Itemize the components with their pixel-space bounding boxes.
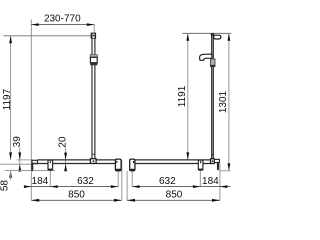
svg-text:1197: 1197 [2, 88, 13, 110]
top bracket arm [214, 35, 221, 39]
dimension 1191 [187, 33, 189, 159]
svg-text:850: 850 [68, 190, 85, 201]
dimension 1197 [10, 36, 12, 160]
right flange [214, 159, 219, 162]
svg-text:632: 632 [159, 176, 176, 187]
rod joint tick [92, 153, 96, 155]
rod joint tick right [211, 153, 214, 155]
foot center extension lines [49, 170, 51, 186]
right dark foot [217, 163, 219, 171]
svg-text:230-770: 230-770 [44, 14, 81, 25]
left side extension lines [17, 159, 33, 161]
svg-text:58: 58 [0, 180, 11, 192]
rod slider [90, 55, 97, 58]
svg-text:184: 184 [32, 176, 49, 187]
dimension line 632 / 184 right [132, 186, 230, 188]
svg-text:20: 20 [58, 136, 69, 148]
right end cap [115, 159, 121, 171]
top reference line [3, 35, 91, 37]
rod-bar junction [90, 159, 96, 164]
top reference line [182, 32, 231, 34]
rod slider right [210, 59, 215, 67]
left dark foot [31, 164, 33, 172]
dimension line 850 right [127, 199, 220, 201]
svg-text:850: 850 [166, 190, 183, 201]
dimension 230-770 [31, 24, 94, 26]
dimension line 850 [31, 199, 122, 201]
dimension 58 [9, 170, 12, 177]
left end cap right figure [130, 159, 135, 171]
extension line rod top [93, 25, 95, 33]
rod-bar junction right [211, 159, 215, 164]
svg-text:632: 632 [77, 176, 94, 187]
rod top cap [91, 33, 97, 39]
bar tube right [135, 159, 211, 161]
extension line right end [121, 160, 123, 200]
rod right [211, 33, 213, 159]
mid foot [48, 160, 53, 170]
extension lines right figure [219, 163, 221, 201]
rod top cap [211, 33, 214, 36]
extension line left end [30, 20, 32, 201]
shower holder [200, 54, 212, 60]
mid foot right figure [198, 160, 203, 170]
svg-text:184: 184 [202, 176, 219, 187]
svg-text:1301: 1301 [218, 90, 229, 113]
extension line foot bottom right [220, 170, 231, 172]
dimension 20 [65, 148, 67, 172]
dimension 1301 [228, 33, 230, 170]
svg-text:39: 39 [12, 136, 23, 148]
dimension 39 [19, 148, 21, 172]
rod [91, 39, 93, 159]
dimension line 184 / 632 [25, 186, 118, 188]
left flange [32, 160, 38, 163]
bar tube [37, 159, 115, 161]
svg-text:1191: 1191 [177, 85, 188, 107]
